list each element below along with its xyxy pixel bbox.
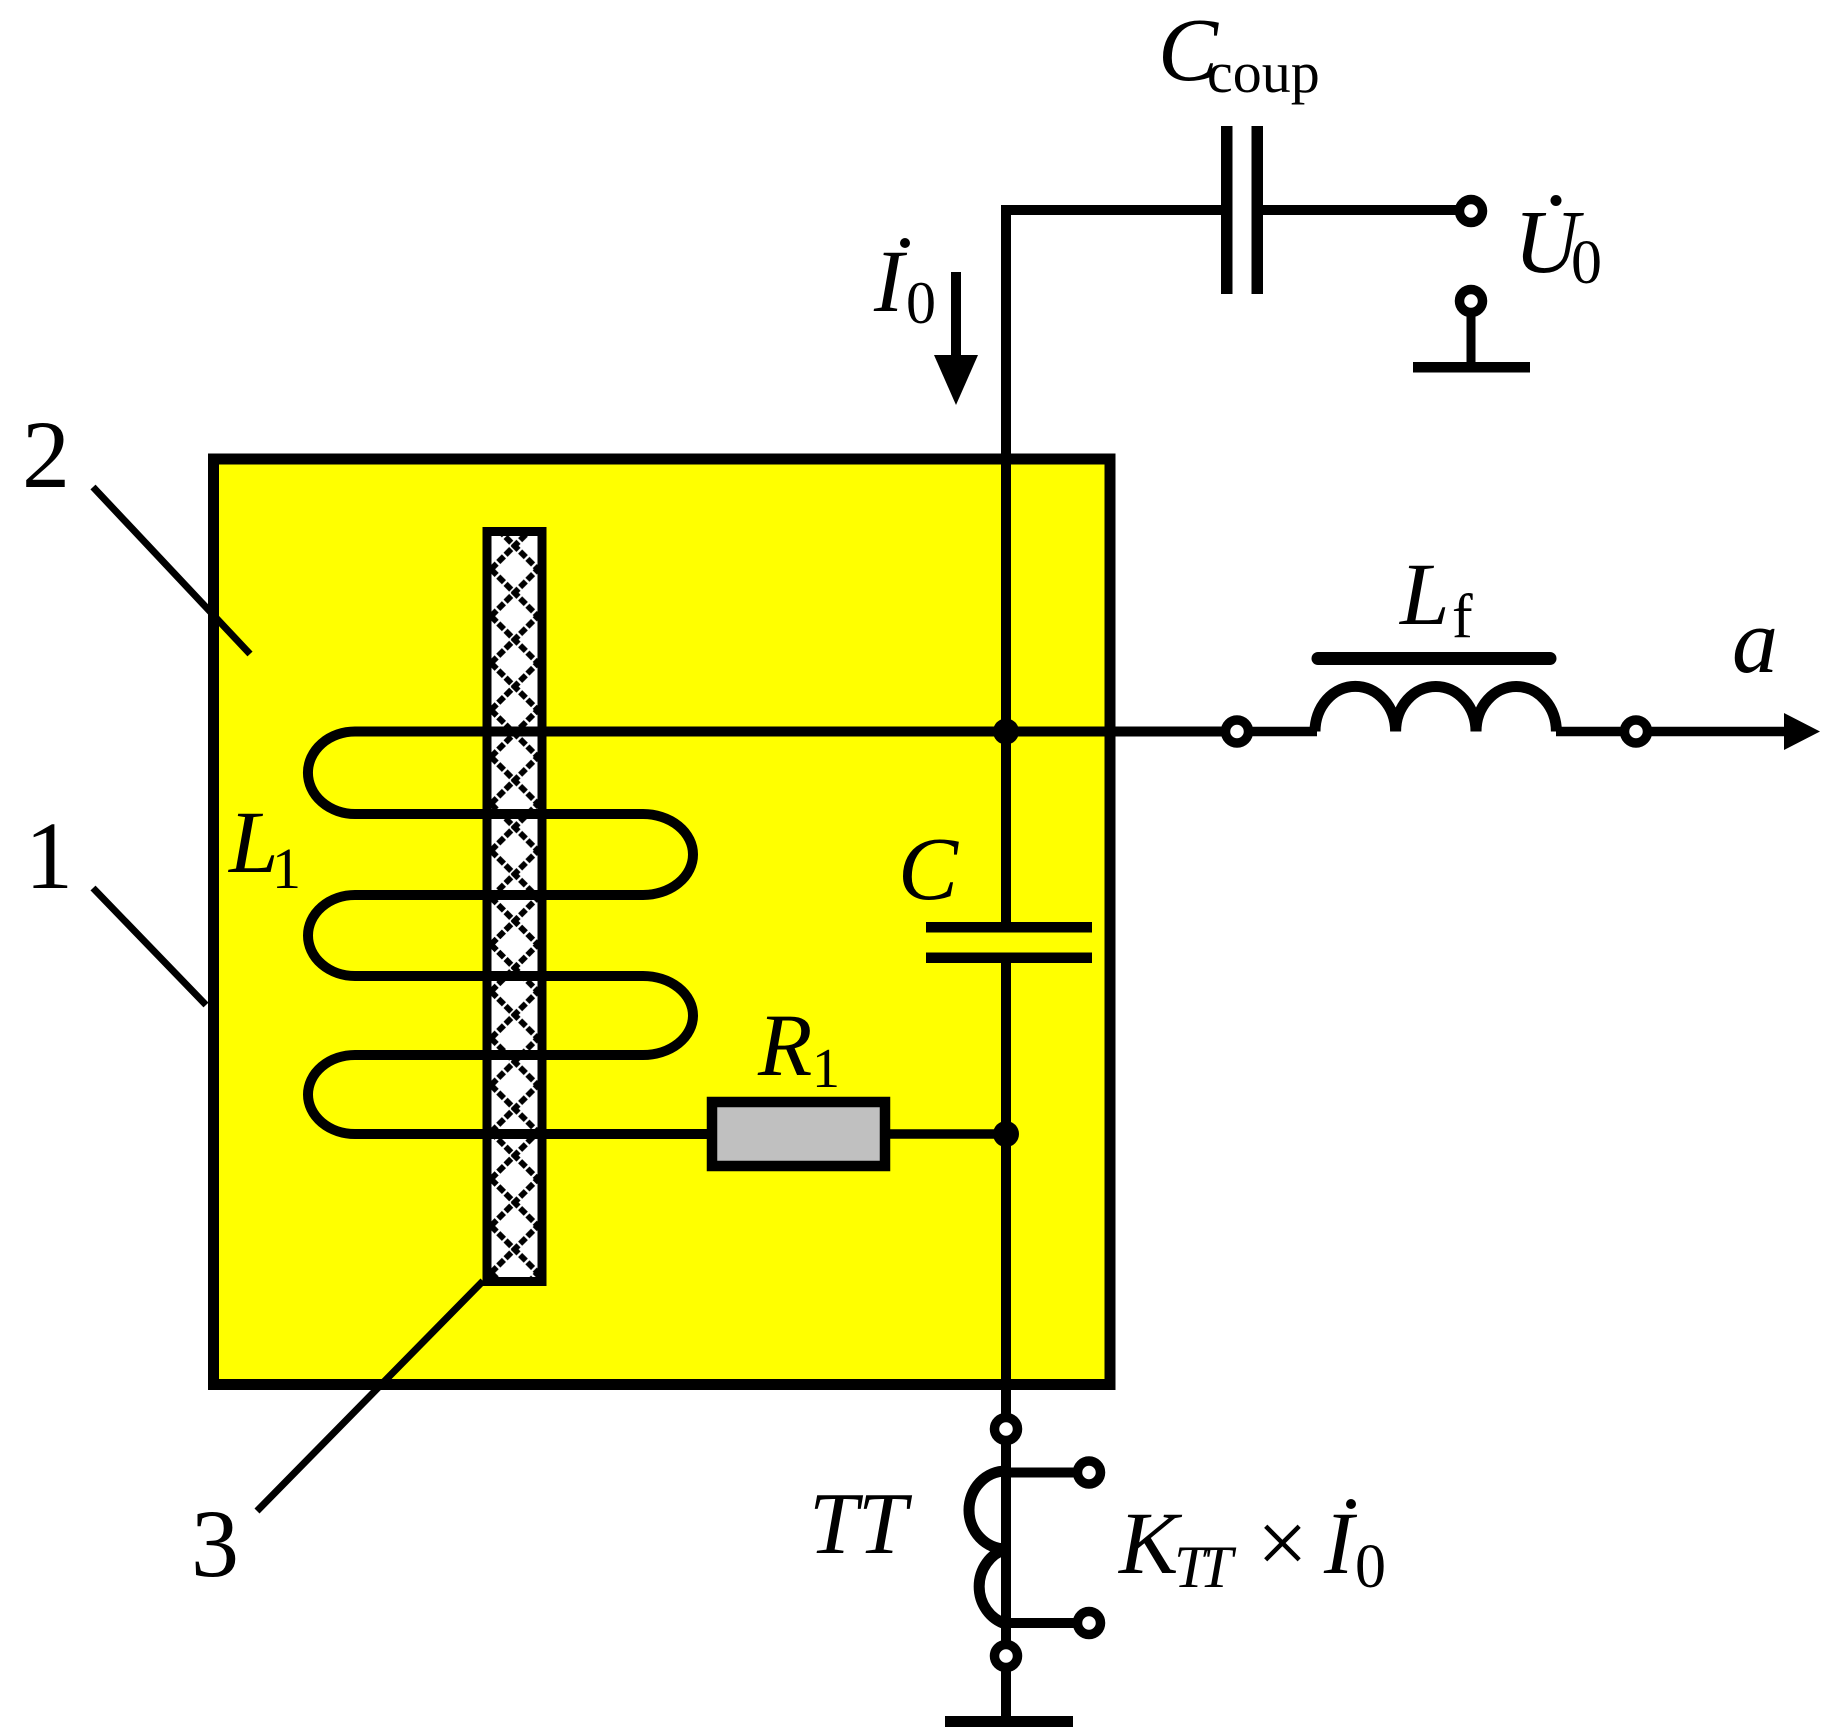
dielectric bar 3 (crosshatched) [487, 532, 542, 1282]
wire Lf to terminal [1556, 727, 1622, 737]
wire terminal to ground [1467, 314, 1476, 362]
inductor L1 (meander winding) [308, 732, 1223, 1135]
wire R1 to node [885, 1129, 1006, 1139]
wire C to node and down to TT [1001, 963, 1011, 1415]
arrow I0 (current direction) [934, 272, 978, 405]
svg-text:1: 1 [272, 836, 301, 901]
label Lf [1398, 546, 1473, 651]
svg-text:1: 1 [812, 1038, 840, 1100]
svg-text:2: 2 [22, 401, 70, 508]
wire TT to bottom terminal [1001, 1624, 1011, 1643]
svg-text:I: I [1323, 1495, 1358, 1593]
svg-text:coup: coup [1207, 40, 1320, 105]
terminal TT secondary top (open circle) [1078, 1461, 1101, 1484]
leader line 2 [93, 487, 250, 654]
leader line 3 [257, 1281, 483, 1511]
terminal output left (open circle) [1226, 720, 1249, 743]
resistor R1 [712, 1102, 885, 1166]
transformer TT primary (2 humps) [969, 1471, 1006, 1624]
capacitor Ccoup [1221, 126, 1263, 294]
svg-text:a: a [1732, 590, 1778, 692]
ground (U0 side bar) [1413, 362, 1530, 373]
label KTT x I0 [1117, 1494, 1386, 1601]
svg-text:L: L [227, 794, 279, 892]
svg-text:0: 0 [1355, 1533, 1386, 1601]
wire terminal to Lf [1251, 727, 1317, 737]
wire TT secondary bottom stub [1006, 1618, 1076, 1628]
terminal bottom (open circle) [995, 1645, 1018, 1668]
terminal ground-side (open circle) [1460, 290, 1483, 313]
wire top horizontal to Ccoup [1001, 205, 1221, 215]
terminal output right (open circle) [1625, 720, 1648, 743]
svg-text:0: 0 [1571, 229, 1602, 297]
node B (junction R1/C) [993, 1121, 1019, 1147]
svg-text:C: C [898, 820, 959, 919]
svg-text:R: R [757, 997, 812, 1095]
wire Ccoup to U0 terminal [1263, 205, 1457, 215]
wire node to output terminal [1006, 727, 1223, 737]
terminal TT secondary bottom (open circle) [1078, 1612, 1101, 1635]
wire terminal to TT [1001, 1442, 1011, 1645]
label I0 (current into box) [873, 233, 936, 336]
wire main vertical upper (I0 branch into box down to capacitor C) [1001, 210, 1011, 923]
label L1 [227, 794, 301, 901]
terminal U0 (open circle) [1460, 200, 1483, 223]
svg-text:0: 0 [906, 270, 936, 336]
wire to arrow a [1650, 727, 1786, 737]
svg-text:×: × [1257, 1494, 1308, 1593]
node A (junction top) [993, 719, 1019, 745]
wire to ground [1001, 1669, 1011, 1718]
screen box 2 (yellow body) [214, 459, 1111, 1385]
svg-text:3: 3 [191, 1490, 239, 1597]
label R1 [757, 997, 840, 1100]
svg-text:f: f [1452, 583, 1473, 651]
label U0 [1514, 193, 1602, 297]
svg-text:TT: TT [809, 1476, 913, 1573]
inductor Lf (3 humps) [1315, 686, 1556, 731]
svg-text:L: L [1398, 546, 1450, 644]
leader line 1 [93, 888, 206, 1005]
wire TT secondary top stub [1006, 1468, 1076, 1478]
ground (bottom bar) [945, 1716, 1073, 1727]
terminal below box (open circle) [995, 1418, 1018, 1441]
svg-text:1: 1 [25, 802, 73, 909]
capacitor C [926, 922, 1092, 963]
arrowhead a [1784, 713, 1820, 750]
svg-text:I: I [873, 233, 908, 331]
inductor Lf core bar [1318, 652, 1550, 665]
label Ccoup [1158, 1, 1320, 105]
